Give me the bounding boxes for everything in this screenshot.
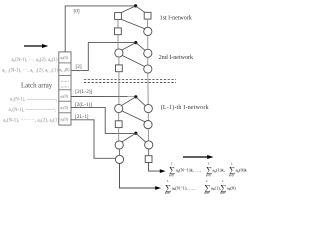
svg-text:k=0: k=0 [165, 192, 170, 195]
arrowhead out1 [160, 169, 166, 173]
svg-text:[2(L-2)]: [2(L-2)] [75, 88, 92, 95]
wire S1a to S1c [117, 19, 119, 28]
svg-text:aL-1(N-1), ⋯, aL-1(2), aL-1(1): aL-1(N-1), ⋯, aL-1(2), aL-1(1) [2, 68, 58, 73]
wire C3d down to C4b [147, 129, 149, 141]
svg-text:a2(0): a2(0) [60, 95, 68, 100]
output wire from C4c [120, 164, 156, 189]
svg-text:∑: ∑ [169, 166, 175, 175]
svg-text:∑: ∑ [204, 183, 210, 192]
wire C4a to C4c [118, 149, 120, 155]
wire [2] [71, 43, 134, 71]
svg-text:∑: ∑ [229, 166, 235, 175]
junction dot D1 [134, 4, 137, 7]
junction dot D3 [134, 95, 137, 98]
svg-text:k=0: k=0 [206, 174, 211, 177]
svg-text:a0(0): a0(0) [60, 56, 68, 61]
svg-text:L: L [171, 162, 173, 165]
svg-text:[2(L-1)]: [2(L-1)] [75, 101, 92, 108]
formula row 2 [165, 180, 236, 195]
wire D3 to circle C3b [136, 97, 146, 106]
svg-text:∑: ∑ [165, 183, 171, 192]
wire D2 to circle C2b [136, 43, 146, 51]
svg-text:∑: ∑ [220, 183, 226, 192]
svg-text:L: L [167, 180, 169, 183]
svg-text:a2(N-1), ------------------,: a2(N-1), ------------------, [10, 98, 58, 103]
junction dot D4 [134, 132, 137, 135]
circle C4b [145, 141, 153, 149]
svg-text:1st I-network: 1st I-network [160, 16, 192, 22]
wire D4 to circle C4b [136, 133, 146, 142]
wire D1 to square S1b [136, 6, 145, 13]
wire C1d down to C2b [147, 36, 149, 50]
arrowhead out2 [155, 186, 161, 190]
svg-text:2nd I-network: 2nd I-network [159, 55, 193, 61]
wire S1b to circle C1d [147, 19, 149, 27]
wire D3 to circle C3a [121, 97, 136, 106]
output direction arrow [183, 155, 214, 159]
wire C4b to S4d [148, 149, 150, 155]
svg-text:k=0: k=0 [169, 174, 174, 177]
cross wire C3a to C3d [122, 111, 145, 122]
circle C3d [144, 121, 152, 129]
wire D1 to square S1a [121, 6, 136, 13]
wire [2(L-2)] [71, 96, 134, 98]
latch cell dividers [59, 63, 71, 113]
circle C2b [144, 49, 152, 57]
svg-text:(L-1)-th I-network: (L-1)-th I-network [161, 104, 209, 111]
wire S2c down across dashes [118, 72, 120, 105]
wire [2(L-1)] [71, 108, 134, 134]
svg-text:a0(N-1), ⋯, a0(2), a0(1): a0(N-1), ⋯, a0(2), a0(1) [11, 58, 58, 63]
svg-text:L: L [206, 180, 208, 183]
circle C3b [144, 104, 152, 112]
wire S3c down to C4a [118, 128, 120, 141]
wire D4 to circle C4a [122, 133, 136, 142]
circle C3a [115, 104, 123, 112]
svg-text:L: L [231, 162, 233, 165]
latch array box [59, 52, 71, 125]
square S1a [115, 13, 122, 20]
formula row 1 [169, 162, 247, 177]
svg-text:k=0: k=0 [220, 192, 225, 195]
cross wire C2a to C2d [122, 56, 144, 67]
cross wire S1a to C1d [121, 19, 144, 28]
svg-text:a1(N-1), ------------------,: a1(N-1), ------------------, [9, 108, 57, 113]
svg-text:aL-1(0): aL-1(0) [59, 68, 70, 73]
circle C2a [115, 49, 123, 57]
circle C2d [144, 65, 152, 73]
latch cell ellipsis dashes [61, 82, 69, 87]
square S1c [115, 28, 122, 35]
wire C3a to S3c [118, 113, 120, 121]
output wire from S4d [149, 163, 161, 172]
junction dot D2 [134, 41, 137, 44]
input arrow [24, 44, 48, 48]
svg-text:k=0: k=0 [204, 192, 209, 195]
wire [2L-1] [71, 120, 115, 159]
circle C4a [115, 141, 123, 149]
svg-text:[0]: [0] [74, 8, 80, 14]
wire C3b to C3d [147, 113, 149, 121]
svg-text:a0(N-1), ⋯⋯⋯, a0(2), a0(1): a0(N-1), ⋯⋯⋯, a0(2), a0(1) [3, 118, 59, 123]
wire C2d down across dashes [147, 73, 149, 104]
svg-text:Latch array: Latch array [21, 83, 53, 90]
square S2c [116, 65, 123, 72]
svg-text:[2L-1]: [2L-1] [75, 114, 89, 120]
svg-text:a1(0): a1(0) [60, 106, 68, 111]
dashed continuation lines [84, 79, 176, 82]
wire [0] [65, 6, 134, 52]
wire C2b to C2d [147, 57, 149, 65]
svg-text:a0(0): a0(0) [60, 118, 68, 123]
circle C4c [115, 155, 123, 163]
svg-text:L: L [222, 180, 224, 183]
svg-text:L: L [208, 162, 210, 165]
wire D2 to circle C2a [121, 43, 136, 51]
svg-text:[2]: [2] [76, 64, 82, 70]
svg-text:k=0: k=0 [229, 174, 234, 177]
square S1b [144, 12, 151, 19]
circle C1d [144, 27, 152, 35]
square S3c [115, 121, 122, 128]
wire C2a to S2c [118, 57, 120, 65]
svg-text:∑: ∑ [206, 166, 212, 175]
square S4d [145, 156, 152, 163]
wire S1c down to C2a [117, 35, 119, 49]
